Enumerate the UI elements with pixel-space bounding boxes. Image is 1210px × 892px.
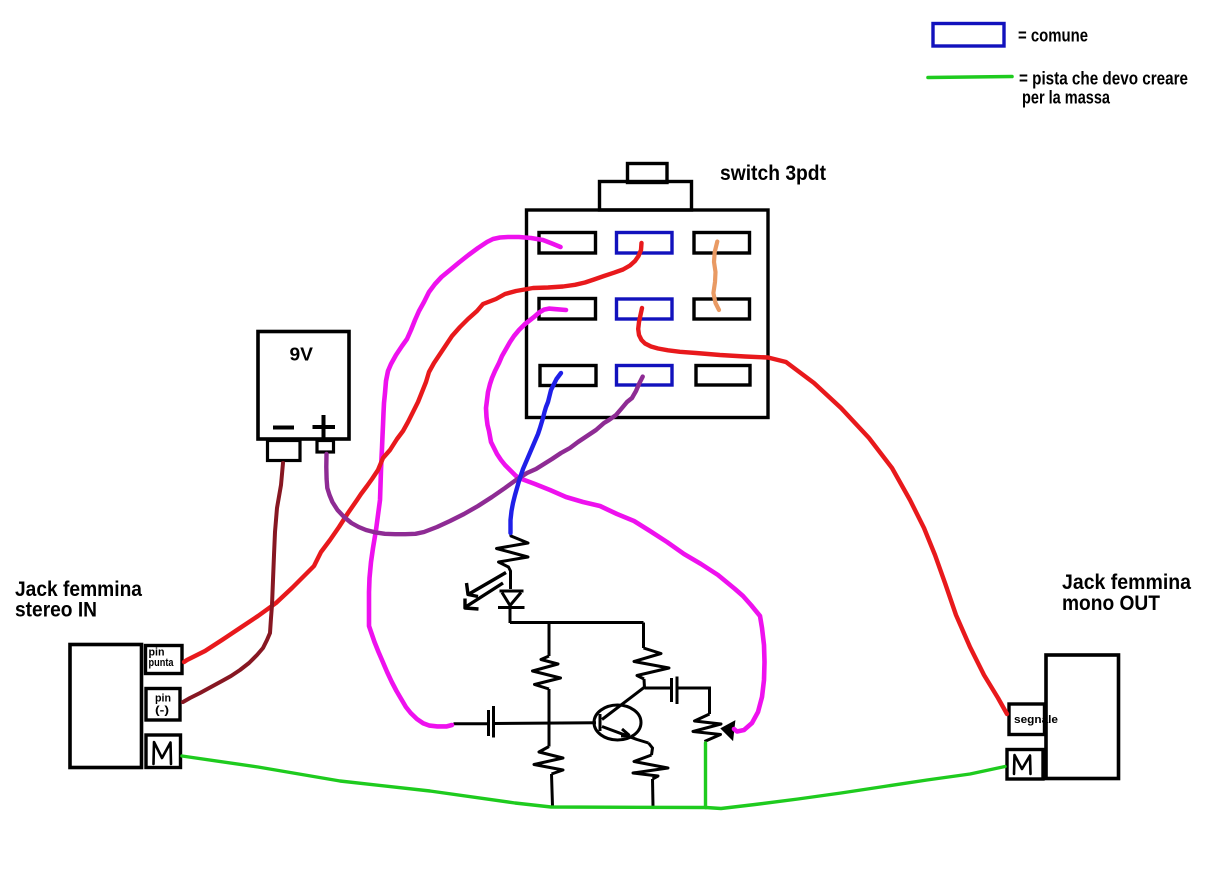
svg-text:pin: pin: [155, 693, 171, 705]
wire rail to R4: [642, 623, 645, 649]
battery BT1 9V body: [258, 332, 349, 440]
svg-text:segnale: segnale: [1014, 714, 1058, 726]
jack stereo IN pin(-) terminal box: [146, 689, 180, 721]
LED light arrow 2: [465, 583, 503, 609]
switch lug 2 row1 col2 comune: [617, 233, 673, 254]
wire magenta lug1 to input cap: [369, 237, 561, 726]
switch button top: [628, 164, 668, 183]
resistor R4 (collector): [634, 648, 669, 679]
switch lug 5 row2 col2 comune: [617, 299, 673, 319]
wire green ground rail to massa right jack: [706, 767, 1005, 809]
wire red lug5 to segnale: [638, 308, 1007, 714]
svg-text:punta: punta: [149, 657, 175, 669]
supply rail wire: [510, 621, 644, 624]
resistor R3 (bias lower): [534, 747, 563, 775]
jack mono OUT M (massa) terminal box: [1007, 750, 1043, 780]
wire base node to R3: [548, 723, 551, 747]
wire R3 to ground rail: [552, 774, 553, 806]
wire green pot to ground rail: [704, 743, 707, 808]
svg-text:= comune: = comune: [1018, 26, 1088, 46]
switch U1 body: [527, 210, 769, 418]
LED D1: [498, 591, 525, 623]
wire dark red battery minus to pin(-): [183, 463, 283, 702]
resistor R6 (emitter): [633, 755, 668, 779]
jack stereo IN M (massa) terminal box: [146, 735, 181, 768]
transistor Q1 body: [594, 705, 641, 740]
svg-text:per la massa: per la massa: [1022, 88, 1111, 108]
potentiometer R5: [693, 714, 721, 742]
M glyph left jack: [154, 742, 172, 764]
wire orange lug3 to lug6: [713, 242, 719, 311]
transistor Q1 collector lead: [602, 688, 644, 720]
battery minus terminal tab: [268, 441, 301, 461]
battery minus sign: [273, 426, 294, 430]
wire green massa left jack to ground rail: [182, 756, 706, 808]
wire R6 to ground rail: [651, 779, 655, 807]
switch lug 9 row3 col3: [696, 366, 750, 386]
battery plus sign: [313, 415, 336, 439]
transistor Q1 base bar: [599, 714, 602, 731]
jack stereo IN body: [70, 645, 142, 768]
switch lug 8 row3 col2 comune: [617, 366, 673, 386]
svg-text:= pista che devo creare: = pista che devo creare: [1019, 69, 1188, 89]
wire emitter to R6: [649, 743, 653, 755]
svg-text:switch 3pdt: switch 3pdt: [720, 162, 826, 185]
transistor Q1 emitter lead with arrow: [602, 727, 649, 744]
LED light arrow 1: [467, 573, 507, 597]
svg-text:9V: 9V: [290, 344, 314, 365]
svg-text:stereo IN: stereo IN: [15, 599, 97, 622]
switch lug 4 row2 col1: [539, 299, 596, 320]
wire R4 to collector node: [643, 679, 647, 688]
output capacitor C2: [672, 677, 678, 705]
battery plus terminal tab: [317, 441, 334, 453]
wire R2 to base node: [548, 689, 551, 723]
resistor R1 (LED series): [497, 533, 529, 589]
wire rail to R2: [548, 623, 551, 657]
wire purple battery plus to lug8: [326, 377, 642, 535]
jack mono OUT body: [1046, 655, 1119, 779]
switch lug 3 row1 col3: [694, 233, 750, 254]
switch lug 1 row1 col1: [539, 233, 596, 254]
svg-text:(-): (-): [155, 705, 169, 717]
base wire: [454, 723, 597, 724]
legend comune box: [933, 24, 1004, 47]
wire collector node to C2: [645, 687, 671, 690]
jack mono OUT segnale terminal box: [1009, 704, 1045, 735]
input capacitor C1: [489, 706, 494, 738]
resistor R2 (bias upper): [533, 656, 561, 689]
wire magenta lug4 to pot wiper: [486, 309, 765, 732]
wire C2 to pot: [677, 688, 710, 714]
switch button base: [600, 182, 692, 211]
svg-text:Jack femmina: Jack femmina: [1062, 571, 1191, 594]
switch lug 6 row2 col3: [694, 299, 750, 319]
svg-text:mono OUT: mono OUT: [1062, 592, 1160, 615]
legend green line: [928, 77, 1012, 78]
potentiometer wiper arrow: [722, 722, 735, 740]
M glyph right jack: [1014, 755, 1031, 774]
wire red lug2 to pin punta: [184, 243, 642, 662]
switch lug 7 row3 col1: [540, 366, 596, 386]
jack stereo IN pin punta terminal box: [146, 646, 183, 674]
wire blue lug7 to R1: [511, 373, 562, 533]
